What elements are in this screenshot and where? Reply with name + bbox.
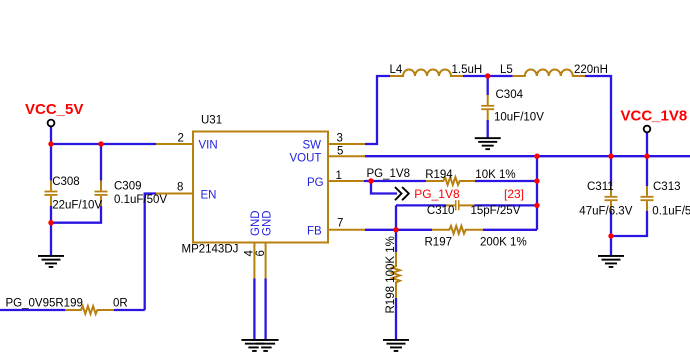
svg-text:VOUT: VOUT — [290, 153, 322, 165]
svg-text:L4: L4 — [390, 64, 403, 76]
svg-text:SW: SW — [303, 140, 322, 152]
svg-text:2: 2 — [178, 133, 184, 145]
svg-text:7: 7 — [337, 217, 343, 229]
svg-text:C313: C313 — [653, 181, 681, 193]
svg-text:L5: L5 — [500, 64, 513, 76]
svg-text:1: 1 — [336, 170, 342, 182]
svg-text:[23]: [23] — [504, 187, 524, 201]
svg-text:VIN: VIN — [199, 140, 218, 152]
svg-text:0.1uF/50V: 0.1uF/50V — [652, 206, 690, 218]
svg-text:GND: GND — [262, 210, 274, 236]
svg-text:200K 1%: 200K 1% — [480, 237, 527, 249]
svg-text:6: 6 — [255, 250, 267, 256]
svg-text:GND: GND — [250, 210, 262, 236]
svg-text:R197: R197 — [425, 237, 453, 249]
svg-text:R194: R194 — [425, 169, 453, 181]
svg-text:EN: EN — [201, 189, 217, 201]
svg-text:VCC_1V8: VCC_1V8 — [621, 108, 688, 125]
svg-text:R198 100K 1%: R198 100K 1% — [385, 236, 397, 313]
svg-text:4: 4 — [244, 250, 256, 257]
svg-text:15pF/25V: 15pF/25V — [471, 205, 521, 217]
svg-text:PG_1V8: PG_1V8 — [367, 168, 410, 180]
svg-text:C308: C308 — [52, 176, 79, 188]
svg-text:C304: C304 — [496, 89, 524, 101]
svg-text:PG_0V95R199: PG_0V95R199 — [6, 298, 83, 310]
svg-text:C310: C310 — [427, 205, 455, 217]
svg-text:0.1uF/50V: 0.1uF/50V — [114, 194, 167, 206]
svg-text:FB: FB — [307, 226, 322, 238]
svg-text:22uF/10V: 22uF/10V — [52, 200, 102, 212]
svg-text:C309: C309 — [114, 181, 142, 193]
svg-text:8: 8 — [177, 182, 183, 194]
svg-text:47uF/6.3V: 47uF/6.3V — [579, 206, 632, 218]
svg-text:VCC_5V: VCC_5V — [25, 101, 83, 118]
svg-text:PG_1V8: PG_1V8 — [414, 187, 460, 201]
svg-text:0R: 0R — [113, 298, 128, 310]
svg-text:10K 1%: 10K 1% — [475, 169, 515, 181]
svg-text:C311: C311 — [587, 181, 614, 193]
svg-text:3: 3 — [337, 133, 343, 145]
svg-text:5: 5 — [337, 146, 343, 158]
svg-text:1.5uH: 1.5uH — [452, 64, 483, 76]
svg-text:MP2143DJ: MP2143DJ — [182, 244, 239, 256]
svg-text:10uF/10V: 10uF/10V — [494, 112, 544, 124]
svg-text:220nH: 220nH — [574, 64, 608, 76]
svg-text:U31: U31 — [201, 115, 222, 127]
svg-text:PG: PG — [307, 177, 324, 189]
